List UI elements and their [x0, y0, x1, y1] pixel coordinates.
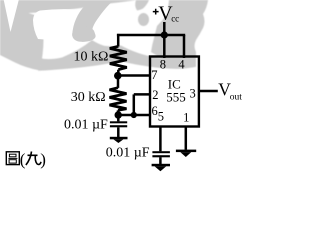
wire pin 7	[118, 74, 150, 77]
svg-text:(: (	[20, 150, 26, 169]
svg-text:0.01 µF: 0.01 µF	[64, 118, 108, 133]
svg-text:10 kΩ: 10 kΩ	[73, 49, 108, 64]
svg-text:3: 3	[190, 86, 196, 100]
node C junction pin2 drop	[131, 112, 137, 118]
wire R1 top lead	[117, 34, 120, 47]
svg-text:2: 2	[152, 88, 158, 102]
svg-text:30 kΩ: 30 kΩ	[71, 90, 106, 105]
watermark logo	[0, 0, 208, 71]
wire pin 6	[118, 114, 150, 117]
label +Vcc	[153, 3, 179, 25]
label Vout	[218, 80, 242, 103]
svg-text:0.01 µF: 0.01 µF	[106, 145, 150, 160]
svg-text:5: 5	[158, 110, 164, 124]
wire pin 2 vertical	[133, 94, 136, 115]
node A junction R1/R2/pin7	[114, 72, 122, 80]
caption 圖(九)	[6, 152, 19, 165]
wire C1 top lead	[117, 115, 120, 121]
node B junction R2/C1/pin6	[115, 111, 122, 118]
wire R1 bottom lead	[117, 70, 120, 76]
wire pin 3 output	[199, 90, 218, 93]
wire R2 bottom lead	[117, 110, 120, 115]
ground G1	[110, 137, 128, 143]
op IC U1 555 box	[150, 57, 199, 127]
wire pin 2 horizontal	[134, 93, 150, 96]
node Vcc junction	[161, 31, 168, 38]
svg-text:7: 7	[151, 68, 157, 82]
svg-text:4: 4	[178, 58, 185, 72]
wire pin 4 drop	[183, 35, 186, 58]
wire pin 5 lead	[159, 126, 162, 151]
svg-text:1: 1	[183, 111, 189, 125]
wire R2 top lead	[117, 76, 120, 88]
resistor R1 zigzag	[110, 46, 127, 69]
svg-text:8: 8	[160, 58, 166, 72]
svg-text:cc: cc	[171, 14, 179, 24]
capacitor C2	[152, 151, 170, 157]
capacitor C1	[110, 121, 127, 127]
wire Vcc lead	[163, 22, 166, 35]
wire pin 1 lead	[185, 126, 188, 150]
svg-text:out: out	[230, 92, 243, 102]
wire pin 8 drop	[163, 35, 166, 58]
wire C1 bottom lead	[117, 127, 120, 137]
ground G3	[176, 150, 196, 157]
wire C2 bottom lead	[159, 157, 162, 164]
ground G2	[152, 164, 170, 172]
watermark swoosh	[72, 2, 112, 42]
resistor R2 zigzag	[110, 88, 127, 111]
wire top rail	[117, 34, 185, 37]
svg-text:): )	[40, 150, 46, 169]
svg-text:555: 555	[166, 90, 186, 105]
